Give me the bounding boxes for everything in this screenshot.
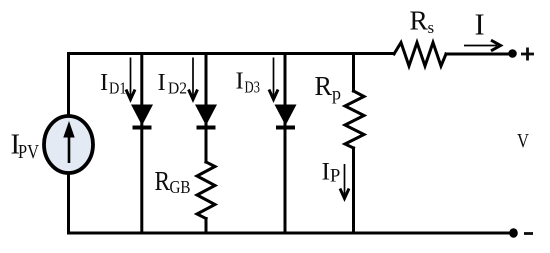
svg-text:R: R <box>155 165 171 196</box>
svg-text:D1: D1 <box>109 79 127 98</box>
svg-text:I: I <box>100 69 108 96</box>
svg-text:I: I <box>322 157 331 186</box>
svg-text:R: R <box>315 70 333 101</box>
svg-text:GB: GB <box>170 177 191 197</box>
svg-text:PV: PV <box>18 141 39 163</box>
svg-text:I: I <box>236 68 244 95</box>
svg-text:V: V <box>517 130 529 152</box>
svg-text:D2: D2 <box>168 79 187 98</box>
svg-text:P: P <box>330 167 340 187</box>
svg-text:s: s <box>428 18 435 37</box>
svg-text:I: I <box>158 69 166 96</box>
svg-text:p: p <box>332 84 341 104</box>
svg-text:I: I <box>475 8 485 42</box>
svg-text:D3: D3 <box>245 78 261 97</box>
svg-text:R: R <box>410 5 429 36</box>
